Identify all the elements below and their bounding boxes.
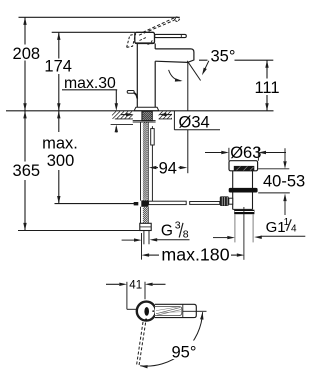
svg-text:208: 208 <box>13 45 41 63</box>
svg-text:174: 174 <box>44 58 72 76</box>
svg-text:4: 4 <box>291 224 297 235</box>
svg-text:3: 3 <box>175 220 181 232</box>
svg-text:Ø34: Ø34 <box>179 114 210 132</box>
svg-text:94: 94 <box>159 159 177 177</box>
svg-text:300: 300 <box>47 152 75 170</box>
svg-text:max.180: max.180 <box>161 244 229 264</box>
svg-text:8: 8 <box>183 229 189 241</box>
svg-text:max.: max. <box>42 135 78 153</box>
svg-text:35°: 35° <box>211 47 236 65</box>
svg-text:95°: 95° <box>172 343 197 361</box>
svg-text:Ø63: Ø63 <box>230 144 261 162</box>
svg-text:365: 365 <box>13 162 41 180</box>
svg-text:40-53: 40-53 <box>263 173 305 191</box>
svg-text:111: 111 <box>254 79 279 97</box>
svg-text:G: G <box>161 223 173 240</box>
svg-text:41: 41 <box>129 279 142 291</box>
